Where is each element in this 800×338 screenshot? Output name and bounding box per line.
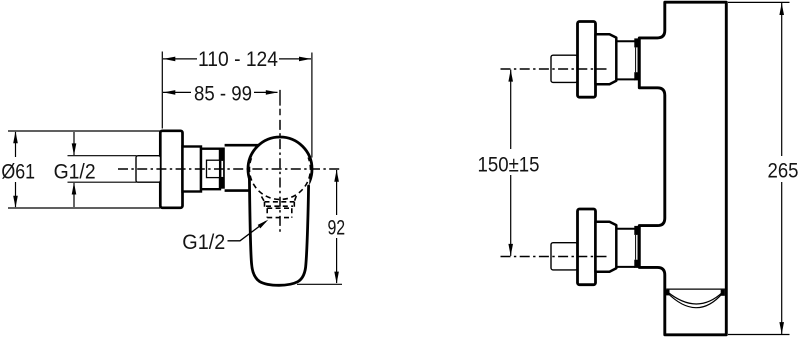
Ø61 extension line bottom <box>8 207 160 209</box>
svg-text:85 - 99: 85 - 99 <box>194 83 252 106</box>
dimension 110-124 extension line right <box>311 53 313 158</box>
svg-text:92: 92 <box>327 217 345 240</box>
inlet arm fill <box>225 147 251 190</box>
bottom inlet centerline <box>501 256 608 258</box>
dimension line 265 <box>781 3 783 156</box>
top flange <box>578 22 596 98</box>
wall flange (escutcheon) <box>160 131 182 208</box>
mixer body round head (white fill + thick stroke) <box>248 137 312 201</box>
spout curve double arc <box>667 292 723 304</box>
top nut squares <box>634 38 639 47</box>
stub thin double lines <box>221 161 224 177</box>
union step 1 <box>183 147 202 192</box>
handle outline stroke <box>249 177 308 285</box>
bottom nut squares <box>634 226 639 235</box>
top wall pipe <box>551 55 578 82</box>
vertical centerline of head <box>279 120 281 233</box>
dimension line 150±15 <box>510 70 512 149</box>
top neck <box>616 41 635 79</box>
bottom wall pipe <box>551 243 578 270</box>
svg-text:110 - 124: 110 - 124 <box>198 48 278 71</box>
Ø61 extension line top <box>8 130 160 132</box>
Ø61 dimension line <box>15 132 17 157</box>
svg-text:265: 265 <box>768 159 799 182</box>
dimension 265 top extension line <box>728 1 790 3</box>
bottom union cone <box>596 222 617 272</box>
inlet arm top edge <box>225 144 259 147</box>
hidden outlet lower box dashed (G1/2 outlet) <box>267 208 292 217</box>
dimension line 92 <box>336 170 338 215</box>
inlet arm bottom edge <box>225 189 250 192</box>
union step 2 <box>201 149 220 190</box>
union nut black band <box>220 148 225 189</box>
bottom nut double lines <box>635 235 637 260</box>
G1/2 dimension arrows outside <box>73 132 75 155</box>
handle body fill (covers lower arc of head) <box>250 176 309 285</box>
hidden outlet taper dashed <box>262 196 297 202</box>
dimension 265 bottom extension line <box>728 334 790 336</box>
bottom neck <box>616 229 635 267</box>
dimension 110-124 extension line left <box>161 52 163 129</box>
hidden outlet upper band dashed <box>265 202 295 208</box>
bottom flange <box>578 209 596 285</box>
top inlet centerline <box>501 68 608 70</box>
svg-text:150±15: 150±15 <box>478 153 540 176</box>
main body outline with inlet bosses <box>639 2 726 335</box>
spout top straight edge <box>666 288 725 290</box>
union stub (small cylinder) <box>207 160 220 177</box>
top union cone <box>596 34 617 84</box>
dimension 92 bottom extension line <box>297 283 342 285</box>
dimension line 110-124 <box>163 58 197 60</box>
inlet pipe (G1/2 wall pipe) <box>136 156 161 183</box>
spout arc end ticks <box>665 290 669 296</box>
svg-text:Ø61: Ø61 <box>1 160 35 183</box>
G1/2 extension line top <box>68 155 137 157</box>
extension dashes below 85-99 at body centerline <box>279 90 281 115</box>
G1/2 outlet leader line <box>228 221 267 241</box>
G1/2 outlet leader arrowhead <box>258 220 269 229</box>
svg-text:G1/2: G1/2 <box>54 161 96 184</box>
dimension line 85-99 <box>163 91 191 93</box>
top nut double lines <box>635 47 637 72</box>
svg-text:G1/2: G1/2 <box>182 231 225 254</box>
G1/2 extension line bottom <box>68 181 137 183</box>
hidden cartridge dashed circle <box>249 158 310 200</box>
horizontal centerline left view <box>118 168 341 170</box>
